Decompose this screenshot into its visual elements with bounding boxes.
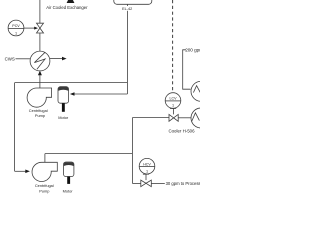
control valve LV-1 [169, 114, 174, 121]
svg-text:Pump: Pump [39, 188, 49, 193]
heat exchanger E1 (CWS cooler) [30, 51, 50, 71]
wire exchanger outlet arrow right [50, 58, 63, 60]
wire valve to cooler [178, 117, 191, 119]
svg-text:CWS: CWS [5, 56, 15, 61]
centrifugal pump P2 [32, 162, 57, 181]
svg-text:HCV: HCV [143, 162, 151, 166]
svg-text:Pump: Pump [35, 113, 45, 118]
instrument PCV-1 [8, 20, 24, 36]
svg-text:Motor: Motor [58, 115, 69, 120]
wire main header line [15, 82, 128, 84]
svg-text:1: 1 [146, 169, 148, 173]
wire arrow into motor M1 [74, 93, 128, 95]
svg-text:1: 1 [172, 104, 174, 108]
svg-text:Cooler H-506: Cooler H-506 [168, 128, 195, 133]
heat exchanger cooler H-506 (clipped right) [191, 108, 211, 128]
svg-text:200 gpm: 200 gpm [185, 48, 200, 53]
wire pump P2 discharge header [45, 153, 132, 155]
svg-text:EL-42: EL-42 [122, 7, 132, 11]
svg-text:Air Cooled Exchanger: Air Cooled Exchanger [46, 5, 88, 10]
wire air cooler outlet down [126, 4, 128, 94]
svg-text:30 gpm to Process: 30 gpm to Process [166, 181, 200, 186]
svg-text:Motor: Motor [63, 188, 74, 193]
wire valve to exchanger top [39, 33, 41, 51]
wire branch to process [132, 182, 140, 184]
heat exchanger E2 (clipped right, 200 gpm) [191, 81, 211, 101]
wire left return header down [14, 83, 16, 172]
wire vertical feed from top to valve V1 [39, 0, 41, 23]
wire PCV-1 signal to valve V1 [24, 27, 35, 29]
centrifugal pump P1 [27, 88, 51, 107]
wire pump P2 discharge up [44, 154, 46, 163]
heat exchanger E1 coil zigzag [34, 52, 45, 69]
motor M2 [64, 162, 74, 177]
wire dashed signal line to LCV-1 [172, 0, 174, 93]
instrument HCV-1 [139, 158, 155, 174]
control valve HV-1 [141, 180, 146, 187]
svg-text:1: 1 [15, 31, 17, 35]
wire CWS inlet line [16, 58, 31, 60]
node label EL-42 [121, 6, 133, 11]
wire to process outlet [151, 182, 165, 184]
air cooled exchanger EL-42 body (clipped at top) [114, 0, 152, 4]
wire return into pump P2 suction [15, 170, 27, 172]
svg-text:PCV: PCV [12, 24, 20, 28]
wire riser between branches [131, 118, 133, 184]
svg-text:LCV: LCV [170, 97, 178, 101]
valve V1 (vertical, on exchanger feed) [37, 23, 44, 28]
wire 200 gpm line [183, 50, 191, 89]
instrument LCV-1 [165, 93, 181, 109]
wire branch to cooler [132, 117, 169, 119]
wire exchanger feed arrow up from pump P1 [38, 71, 42, 76]
motor M1 [58, 87, 69, 104]
wire clipped up-arrow above label [67, 0, 75, 3]
